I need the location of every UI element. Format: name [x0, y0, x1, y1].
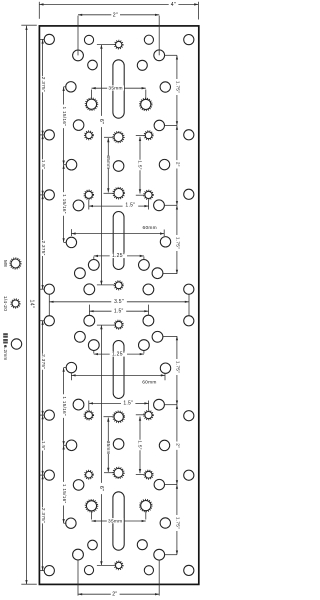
dimension 3.5 inch center	[49, 301, 111, 303]
hole R4 right column mirror	[184, 316, 194, 326]
threaded hole D5 center mirror	[114, 468, 123, 477]
svg-text:6.2mm: 6.2mm	[3, 345, 8, 360]
dimension 1.25 inch upper	[94, 255, 110, 257]
threaded hole D4	[145, 132, 152, 139]
hole D2	[154, 120, 164, 130]
dimension 60mm upper	[71, 233, 164, 235]
hole F4	[73, 200, 84, 211]
hole G1 mirror	[66, 362, 76, 372]
hole A2	[84, 35, 93, 44]
svg-text:6": 6"	[98, 119, 104, 124]
svg-text:35mm: 35mm	[106, 155, 111, 169]
hole H3	[75, 268, 86, 279]
threaded hole J3 center mirror	[115, 321, 122, 328]
svg-text:1.75": 1.75"	[174, 81, 180, 93]
dimension 1.5 inch center	[89, 310, 111, 312]
extension line right hole pair	[188, 294, 190, 315]
svg-text:2.375": 2.375"	[40, 354, 46, 369]
hole H2	[139, 260, 150, 271]
svg-text:1.25": 1.25"	[112, 352, 125, 358]
dimension 35mm vertical upper	[107, 138, 109, 156]
hole A4 corner TR	[184, 35, 194, 45]
slot 4 (lower 35mm slot)	[113, 492, 124, 550]
slot 1 (upper 35mm slot)	[113, 60, 124, 118]
svg-text:1/4-20: 1/4-20	[2, 296, 8, 311]
threaded hole F2 center	[114, 189, 123, 198]
threaded hole D5 center	[114, 133, 123, 142]
hole R3 right column	[184, 189, 194, 199]
hole L4 left column	[44, 284, 54, 294]
dimension 35mm vertical lower	[107, 418, 109, 442]
hole B5 mirror	[137, 540, 147, 550]
svg-text:35mm: 35mm	[106, 441, 111, 455]
dimension 35mm horizontal upper	[92, 87, 108, 89]
hole H1 mirror	[88, 340, 99, 351]
svg-text:2": 2"	[113, 12, 118, 18]
hole H4 mirror	[152, 331, 163, 342]
hole A3	[144, 35, 153, 44]
hole B2	[73, 50, 84, 61]
hole R2 right column mirror	[184, 470, 194, 480]
threaded hole F3 mirror	[145, 412, 152, 419]
svg-text:1.5": 1.5"	[114, 309, 124, 315]
hole D1 mirror	[73, 480, 84, 491]
threaded hole C4	[141, 99, 151, 109]
slot 3	[113, 341, 124, 399]
threaded hole F2 center mirror	[114, 412, 123, 421]
hole H3 mirror	[75, 331, 86, 342]
svg-text:2.375": 2.375"	[40, 77, 46, 92]
dimension 2 inch bottom hole spacing	[77, 560, 79, 596]
dimension chain 1 15/16 inch upper	[63, 87, 65, 105]
dimension 1.25 inch lower	[94, 353, 110, 355]
hole E2 center	[113, 161, 124, 172]
hole F5 mirror	[154, 399, 165, 410]
hole C2 mirror	[160, 518, 170, 528]
legend 1/4-20 threaded hole symbol	[12, 300, 19, 307]
threaded hole J3 center	[115, 282, 122, 289]
dimension 14 inch overall height	[21, 24, 37, 26]
dimension 1.5 inch vertical lower	[139, 417, 141, 440]
dimension 6 inch lower	[100, 325, 102, 483]
hole R3 right column mirror	[184, 411, 194, 421]
hole J1	[84, 284, 95, 295]
svg-text:M8: M8	[3, 260, 8, 267]
hole A3 mirror	[144, 566, 153, 575]
svg-text:1.5": 1.5"	[123, 401, 133, 407]
svg-text:35mm: 35mm	[108, 518, 122, 524]
svg-text:1 15/16": 1 15/16"	[61, 194, 67, 214]
svg-text:1.25": 1.25"	[112, 253, 125, 259]
hole R2 right column	[184, 130, 194, 140]
threaded hole F1	[85, 191, 92, 198]
svg-text:1.5": 1.5"	[125, 203, 135, 209]
svg-text:1.5": 1.5"	[40, 160, 46, 169]
hole J2	[143, 284, 154, 295]
hole H2 mirror	[139, 340, 150, 351]
threaded hole D4 mirror	[145, 471, 152, 478]
svg-text:14": 14"	[29, 300, 35, 309]
hole G2	[160, 237, 170, 247]
hole D2 mirror	[154, 479, 164, 489]
hole R4 right column	[184, 284, 194, 294]
hole L4 left column mirror	[44, 316, 54, 326]
hole B2 mirror	[73, 549, 84, 560]
hole F4 mirror	[73, 399, 84, 410]
hole E3	[159, 159, 169, 169]
hole D1	[73, 120, 84, 131]
hole B5	[137, 60, 147, 70]
hole A1 corner TL mirror	[44, 566, 54, 576]
svg-text:2": 2"	[174, 443, 180, 448]
threaded hole C4 mirror	[141, 501, 151, 511]
svg-text:2.375": 2.375"	[40, 508, 46, 523]
dimension chain left lower 2.375-1.5-2.375 inch	[42, 321, 44, 354]
hole B4 mirror	[88, 540, 98, 550]
hole A2 mirror	[84, 566, 93, 575]
hole B4	[88, 60, 98, 70]
hole C1	[66, 82, 76, 92]
hole L2 left column mirror	[44, 470, 54, 480]
svg-text:2": 2"	[112, 592, 117, 598]
threaded hole B1 center mirror	[116, 562, 122, 568]
hole E1	[66, 159, 77, 170]
svg-text:60mm: 60mm	[142, 380, 156, 386]
threaded hole D3 mirror	[86, 471, 93, 478]
dimension 1.5 inch horizontal upper	[89, 205, 123, 207]
plate outline 4x14 inch	[39, 26, 198, 585]
dimension 6 inch upper	[100, 45, 102, 116]
dimension chain 1 15/16 inch lower	[63, 368, 65, 395]
hole E3 mirror	[159, 440, 169, 450]
hole L3 left column	[44, 190, 54, 200]
legend label diameter 6.2mm	[3, 333, 8, 338]
dimension chain left 2.375-1.5-2.375 inch	[42, 39, 44, 76]
hole J1 mirror	[84, 315, 95, 326]
hole A4 corner TR mirror	[184, 565, 194, 575]
hole C1 mirror	[66, 518, 76, 528]
hole E2 center mirror	[113, 439, 124, 450]
svg-text:35mm: 35mm	[108, 86, 122, 92]
svg-text:3.5": 3.5"	[114, 299, 124, 305]
hole E1 mirror	[66, 440, 77, 451]
legend M8 threaded hole symbol	[11, 259, 20, 268]
extension line left hole pair	[48, 294, 50, 315]
dimension 4 inch overall width	[38, 2, 40, 19]
dimension 35mm horizontal lower	[92, 520, 108, 522]
svg-text:1.75": 1.75"	[174, 237, 180, 249]
dimension 60mm lower	[71, 374, 165, 376]
dimension chain right 1.75-2-1.75 inch upper	[176, 55, 178, 79]
hole B3 mirror	[154, 549, 165, 560]
svg-text:2": 2"	[174, 162, 180, 167]
hole B3	[154, 50, 165, 61]
svg-text:1.5": 1.5"	[137, 440, 143, 449]
dimension 1.5 inch vertical upper	[139, 137, 141, 160]
svg-text:6": 6"	[98, 486, 104, 491]
svg-text:1.5": 1.5"	[137, 160, 143, 169]
svg-text:1.75": 1.75"	[174, 361, 180, 373]
hole J2 mirror	[143, 315, 154, 326]
hole A1 corner TL	[44, 34, 54, 44]
threaded hole C3 mirror	[86, 501, 96, 511]
hole L2 left column	[44, 130, 54, 140]
legend plain hole symbol	[11, 339, 21, 349]
threaded hole F3	[145, 191, 152, 198]
dimension 2 inch top hole spacing	[77, 16, 79, 56]
svg-text:2.375": 2.375"	[40, 240, 46, 255]
svg-text:1 15/16": 1 15/16"	[61, 107, 67, 127]
hole G1	[66, 237, 76, 247]
hole C2	[160, 82, 170, 92]
hole G2 mirror	[160, 363, 170, 373]
threaded hole D3	[86, 132, 93, 139]
svg-text:1 15/16": 1 15/16"	[61, 396, 67, 416]
svg-text:60mm: 60mm	[143, 225, 157, 231]
slot 2	[113, 212, 124, 270]
dimension chain right 1.75-2-1.75 inch lower	[176, 336, 178, 359]
threaded hole C3	[86, 99, 96, 109]
hole L3 left column mirror	[44, 410, 54, 420]
svg-text:1.5": 1.5"	[40, 441, 46, 450]
svg-text:1.75": 1.75"	[174, 517, 180, 529]
svg-text:4": 4"	[171, 2, 176, 8]
hole H1	[88, 260, 99, 271]
threaded hole B1 center	[116, 41, 122, 47]
threaded hole F1 mirror	[85, 412, 92, 419]
hole F5	[154, 200, 165, 211]
svg-text:1 15/16": 1 15/16"	[61, 484, 67, 504]
dimension 1.5 inch horizontal lower	[89, 402, 121, 404]
hole H4	[152, 268, 163, 279]
